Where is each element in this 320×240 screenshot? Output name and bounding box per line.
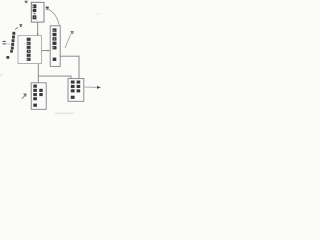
output wire: [84, 86, 97, 88]
U4 text two columns: [33, 85, 42, 107]
faint scan smudges: [55, 113, 74, 114]
block U1 (top box): [31, 2, 44, 22]
caret mark: [15, 27, 18, 29]
U1 text (rotated chars): [33, 4, 37, 19]
wire U3 bottom to U4: [37, 64, 39, 83]
label 3 numeral: [71, 31, 74, 34]
branch wire to U5: [38, 76, 71, 78]
output arrowhead: [97, 86, 101, 89]
wire U2 to U5 (right path): [60, 56, 79, 78]
arrowhead right: [48, 50, 50, 52]
U3 text: [27, 38, 31, 61]
block U3 (left box): [18, 36, 42, 64]
wire U3 to U2: [42, 50, 50, 52]
label 11 numeral: [3, 41, 6, 44]
U5 text two columns: [71, 81, 80, 99]
leader curve to U2: [49, 10, 60, 26]
arrowhead down: [37, 34, 39, 37]
label 2 numeral: [46, 7, 49, 10]
leader 14: [22, 95, 26, 99]
block U4 (bottom-center box): [31, 83, 46, 110]
block U2 (center tall box): [50, 26, 60, 67]
label 12 (top-left numeral): [25, 1, 28, 3]
leader 11: [6, 43, 10, 45]
U2 text: [53, 28, 57, 61]
leader curve 3: [65, 34, 71, 48]
block U5 (bottom-right box): [68, 79, 84, 102]
input arrow mark: [19, 24, 22, 27]
wire U1 to U3: [37, 22, 39, 35]
input label text (slanted column of chars): [6, 32, 15, 59]
label 14 numeral: [24, 94, 27, 97]
